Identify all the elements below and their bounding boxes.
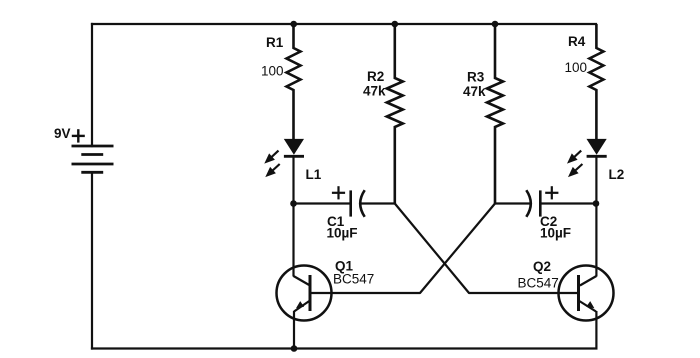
wire left rail lower	[91, 172, 93, 348]
node Q1 emitter bottom	[291, 345, 298, 352]
svg-text:47k: 47k	[363, 84, 386, 99]
svg-text:10µF: 10µF	[327, 226, 358, 241]
resistor R4	[589, 24, 603, 139]
wire C1 row left	[294, 202, 351, 204]
node C1 left	[290, 200, 297, 207]
svg-text:10µF: 10µF	[540, 226, 571, 241]
svg-text:L1: L1	[306, 167, 322, 182]
svg-text:R1: R1	[266, 35, 284, 50]
wire cross coupling C1/R2 to Q2 base	[395, 204, 579, 294]
C2 plus sign	[545, 186, 558, 199]
transistor Q2	[559, 204, 614, 349]
resistor R3	[487, 24, 503, 204]
svg-text:BC547: BC547	[518, 276, 559, 291]
transistor Q1	[277, 204, 332, 349]
svg-text:R2: R2	[367, 69, 384, 84]
svg-text:47k: 47k	[463, 84, 486, 99]
node R1 top	[290, 21, 297, 28]
svg-text:R3: R3	[467, 70, 485, 85]
svg-text:R4: R4	[568, 34, 586, 49]
wire top rail	[92, 23, 596, 25]
wire left rail upper	[91, 24, 93, 146]
wire bottom rail	[92, 347, 596, 349]
wire C2 to L2 junction	[540, 202, 596, 204]
svg-text:100: 100	[565, 60, 588, 75]
node C2 right	[593, 200, 600, 207]
resistor R1	[287, 24, 301, 139]
wire C1 to R2 junction	[361, 202, 395, 204]
battery plus sign	[72, 129, 85, 142]
node R3 top	[492, 21, 499, 28]
svg-text:BC547: BC547	[333, 272, 374, 287]
capacitor C1	[351, 190, 365, 217]
C1 plus sign	[332, 186, 345, 199]
svg-text:100: 100	[261, 64, 284, 79]
LED L2 light arrows	[569, 151, 582, 176]
node junction dots	[290, 21, 599, 352]
resistor R2	[387, 24, 403, 204]
node R2 top	[392, 21, 399, 28]
LED L1	[284, 139, 304, 203]
capacitor C2	[526, 190, 540, 217]
svg-text:Q2: Q2	[533, 259, 551, 274]
svg-text:L2: L2	[609, 167, 625, 182]
wire C2 row left	[495, 202, 530, 204]
LED L2	[587, 139, 607, 203]
battery B1 9V	[72, 146, 114, 172]
wire cross coupling C2/R3 to Q1 base	[310, 204, 495, 294]
svg-text:9V: 9V	[54, 126, 71, 141]
LED L1 light arrows	[266, 151, 279, 176]
